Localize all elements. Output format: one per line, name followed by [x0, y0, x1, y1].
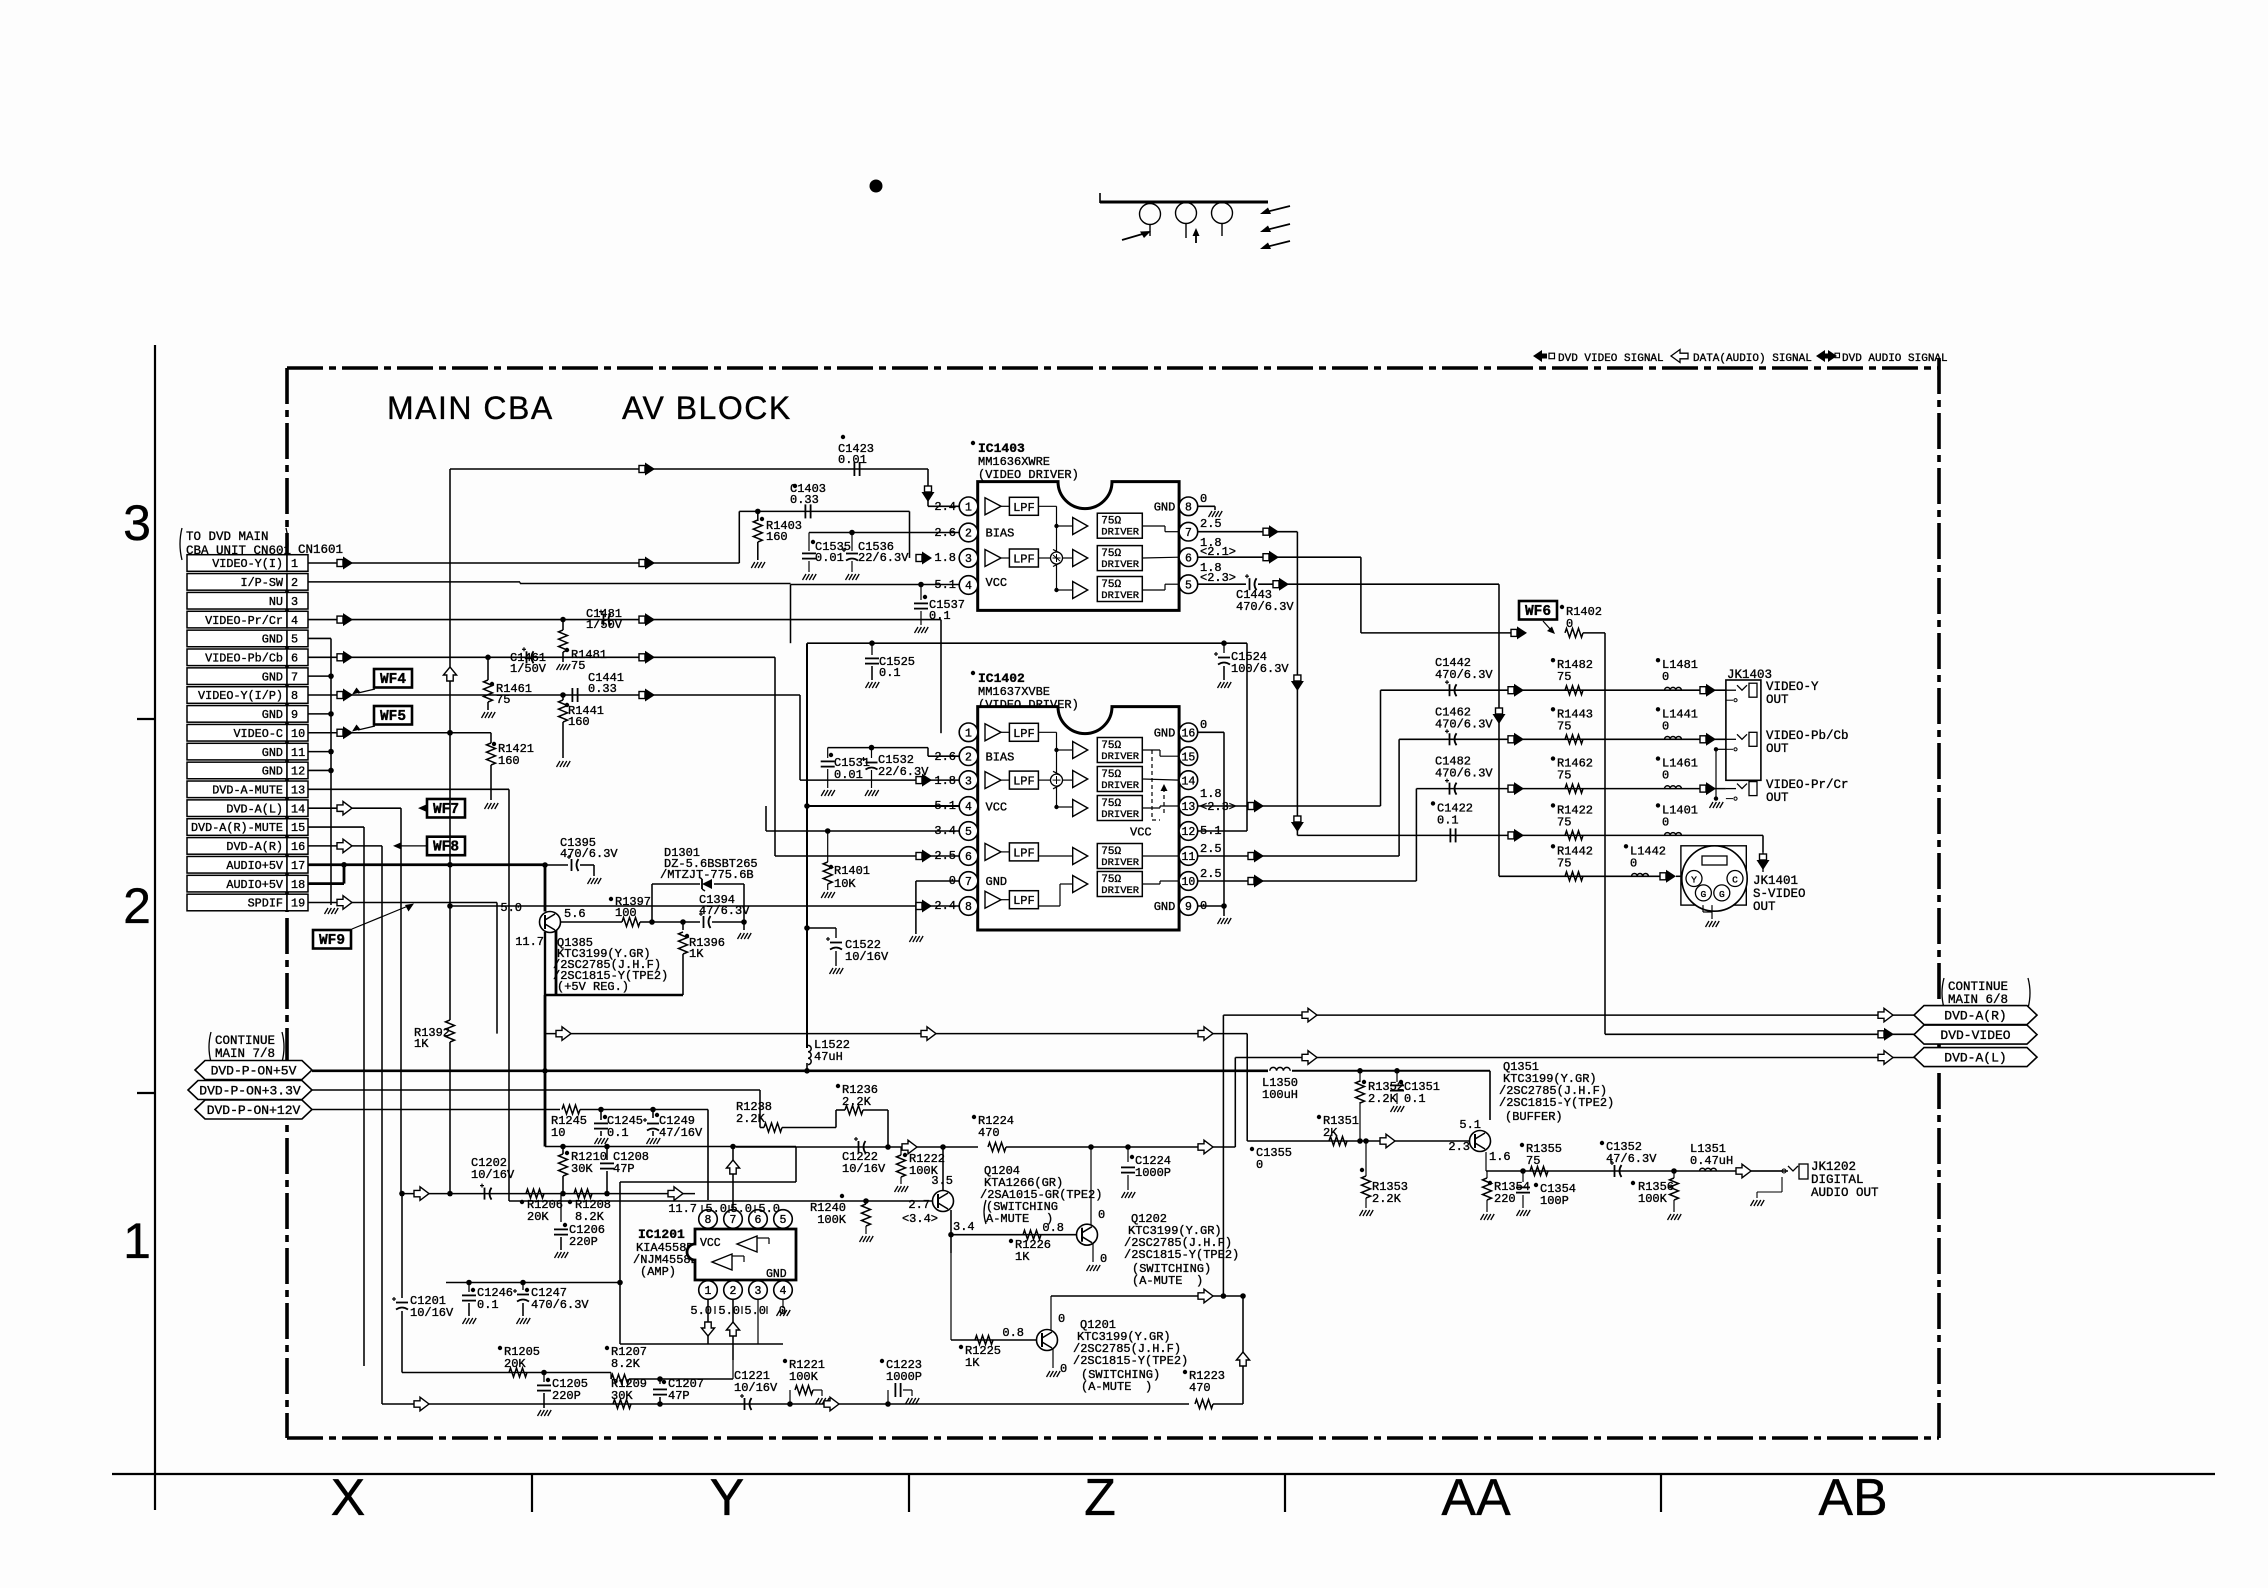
- Q1201 collector wire: [1050, 1296, 1052, 1330]
- arrow up R1223 trunk: [1242, 1296, 1244, 1404]
- capacitor C1246: [468, 1283, 470, 1293]
- capacitor C1481: [596, 619, 616, 621]
- signal arrow pin8 right: [639, 692, 645, 699]
- svg-text:IC1403: IC1403: [978, 441, 1025, 456]
- wire pin14 DVD-A(L): [308, 807, 401, 809]
- resistor R1240: [509, 1200, 878, 1202]
- wire pin13 DVD-A-MUTE: [308, 788, 509, 790]
- svg-text:75: 75: [1557, 670, 1571, 684]
- resistor R1401: [825, 828, 831, 834]
- svg-text:1/50V: 1/50V: [510, 662, 547, 676]
- svg-text:30K: 30K: [611, 1389, 633, 1403]
- IC1402 pin 6: [959, 847, 978, 866]
- arrow WF4 pointer: [358, 689, 375, 693]
- svg-text:470/6.3V: 470/6.3V: [531, 1298, 589, 1312]
- signal arrow into JK1403 Pr: [1700, 785, 1706, 792]
- svg-text:<3.4>: <3.4>: [902, 1212, 938, 1226]
- junction pin8/R1441: [560, 692, 566, 698]
- signal arrow down pin7 chain lower: [1294, 816, 1301, 822]
- svg-text:0.1: 0.1: [1404, 1092, 1426, 1106]
- connector CN1601 pin 4 VIDEO-Pr/Cr: [187, 611, 287, 628]
- connector CN1601 pin 18 AUDIO+5V: [187, 875, 287, 892]
- signal arrow down into IC1403 pin1: [925, 486, 932, 492]
- wire IC1403 pin4 VCC: [791, 584, 960, 586]
- waveform label WF8: [427, 837, 465, 856]
- IC IC1201 body: [687, 1229, 796, 1280]
- signal arrow WF6 wire: [1511, 629, 1517, 636]
- wire output row Pr: [1416, 788, 1726, 790]
- ground symbol gnd bus: [325, 908, 329, 914]
- wire pin4 VIDEO-Pr/Cr: [308, 619, 941, 621]
- capacitor C1245: [598, 1107, 604, 1113]
- wire pin15 DVD-A(R)-MUTE: [308, 826, 364, 828]
- svg-text:4: 4: [965, 801, 972, 814]
- IC1402 75ohm driver 3: [1097, 796, 1142, 821]
- svg-text:G: G: [1701, 889, 1707, 900]
- svg-text:8: 8: [705, 1214, 712, 1227]
- wire R1236 to C1222 row: [887, 1110, 889, 1147]
- capacitor C1522: [807, 927, 836, 929]
- connector CN1601 pin 8 VIDEO-Y(I/P): [187, 687, 287, 704]
- svg-text:(BUFFER): (BUFFER): [1505, 1110, 1563, 1124]
- svg-text:220P: 220P: [552, 1389, 581, 1403]
- svg-text:2: 2: [291, 576, 298, 590]
- capacitor C1536: [849, 530, 855, 536]
- IC1403 driver outputs to pins: [1142, 525, 1165, 527]
- svg-text:15: 15: [291, 821, 305, 835]
- JK1403 ground stub: [1716, 748, 1726, 750]
- arrow WF8 pointer: [400, 845, 445, 847]
- capacitor C1207: [659, 1379, 661, 1384]
- svg-text:): ): [1196, 1274, 1203, 1288]
- svg-text:13: 13: [291, 784, 305, 798]
- svg-text:0: 0: [1662, 719, 1669, 733]
- AV block border left: [285, 368, 289, 1438]
- Q1202 collector wire: [1090, 1147, 1092, 1225]
- connector CN1601 pin 16 DVD-A(R): [187, 838, 287, 855]
- svg-text:100K: 100K: [789, 1370, 819, 1384]
- svg-text:0: 0: [1630, 856, 1637, 870]
- svg-text:10/16V: 10/16V: [842, 1162, 886, 1176]
- diode D1301: [651, 884, 653, 922]
- svg-text:470/6.3V: 470/6.3V: [1435, 717, 1493, 731]
- svg-text:30K: 30K: [571, 1162, 593, 1176]
- connector CN1601 pin 6 VIDEO-Pb/Cb: [187, 649, 287, 666]
- svg-text:0.1: 0.1: [879, 666, 901, 680]
- transistor Q1202: [1077, 1224, 1098, 1245]
- waveform label WF4: [374, 669, 412, 688]
- svg-text:GND: GND: [986, 875, 1008, 889]
- signal arrow down into JK1401 C: [1760, 854, 1767, 860]
- wire IC1201 pin4 gnd: [782, 1300, 784, 1308]
- svg-text:9: 9: [1185, 901, 1192, 914]
- svg-text:(A-MUTE: (A-MUTE: [1081, 1380, 1131, 1394]
- wire audio R lower chain: [402, 1372, 611, 1374]
- svg-text:7: 7: [291, 670, 298, 684]
- fold mark arrow 1: [1122, 233, 1146, 240]
- svg-text:DVD-P-ON+3.3V: DVD-P-ON+3.3V: [199, 1084, 301, 1099]
- svg-text:220: 220: [1494, 1192, 1516, 1206]
- IC1403 75ohm driver 1: [1097, 513, 1142, 538]
- svg-text:0: 0: [1060, 1362, 1067, 1376]
- svg-text:0.1: 0.1: [477, 1298, 499, 1312]
- signal arrow pin6 right: [639, 654, 645, 661]
- IC1402 pin 1: [959, 723, 978, 742]
- IC1403 pin 8: [1179, 497, 1198, 516]
- IC1403 wiring internal: [1038, 505, 1056, 507]
- continue main 6/8 note: [1942, 978, 1944, 1008]
- sheet frame left border: [154, 345, 156, 1510]
- svg-text:16: 16: [1181, 728, 1195, 741]
- signal arrow into JK1403 Pb: [1700, 736, 1706, 743]
- wire DVD-P-ON+12V: [312, 1109, 560, 1111]
- wire +5V down from Q1385: [544, 995, 547, 1147]
- resistor R1356: [1671, 1168, 1677, 1174]
- IC1402 wiring internal: [1038, 731, 1056, 733]
- continue main 7/8 note: [209, 1032, 211, 1062]
- svg-text:AV BLOCK: AV BLOCK: [622, 390, 792, 426]
- connector CN1601 pin 15 DVD-A(R)-MUTE: [187, 819, 287, 836]
- svg-text:0: 0: [1662, 815, 1669, 829]
- wire SPDIF digital audio path: [545, 1033, 1247, 1035]
- svg-text:1: 1: [965, 502, 972, 515]
- svg-text:18: 18: [291, 878, 305, 892]
- inductor L1481: [1665, 687, 1682, 690]
- ground JK1403: [1710, 802, 1714, 808]
- waveform label WF9: [313, 930, 351, 949]
- junction pin10/R1421: [447, 730, 453, 736]
- wire Q1351 emitter row: [1485, 1152, 1487, 1171]
- svg-text:2: 2: [123, 878, 151, 934]
- wire IC1403 pin5 output: [1198, 583, 1246, 585]
- signal arrow pin1 mid: [639, 560, 645, 567]
- label R1481 dot: [565, 648, 569, 652]
- svg-text:(AMP): (AMP): [640, 1265, 676, 1279]
- capacitor C1532: [869, 745, 875, 751]
- svg-text:I/P-SW: I/P-SW: [241, 576, 284, 590]
- svg-text:75: 75: [1526, 1154, 1540, 1168]
- resistor R1236: [835, 1110, 837, 1128]
- wire pin16 DVD-A(R): [308, 845, 382, 847]
- svg-text:2.3: 2.3: [1448, 1140, 1470, 1154]
- svg-text:DATA(AUDIO) SIGNAL: DATA(AUDIO) SIGNAL: [1693, 353, 1812, 365]
- svg-text:BIAS: BIAS: [986, 751, 1015, 765]
- svg-text:1K: 1K: [965, 1356, 980, 1370]
- IC1403 driver amp 2: [1073, 550, 1088, 567]
- IC1402 75ohm driver 5: [1097, 872, 1142, 897]
- ground R1461: [482, 712, 486, 718]
- IC1402 summing node: [1051, 774, 1063, 786]
- svg-text:5.0: 5.0: [705, 1202, 727, 1216]
- connector CN1601 header note: [180, 528, 182, 560]
- svg-text:2K: 2K: [1323, 1126, 1338, 1140]
- svg-text:LPF: LPF: [1013, 727, 1035, 741]
- svg-text:(+5V REG.): (+5V REG.): [557, 980, 629, 994]
- svg-text:11.7: 11.7: [668, 1202, 697, 1216]
- wire IC1402 pin11 output to row Pb riser: [1198, 855, 1399, 857]
- wire IC1201 pin7 up: [732, 1147, 734, 1211]
- svg-text:1: 1: [123, 1213, 151, 1269]
- signal arrow row C1442: [1508, 687, 1514, 694]
- signal arrow down pin5 chain: [1496, 708, 1503, 714]
- IC1402 driver amp 1: [1073, 742, 1088, 759]
- svg-text:VCC: VCC: [986, 801, 1008, 815]
- junction Q1201 row to DVD-A(R) trunk: [1221, 1293, 1227, 1299]
- svg-text:11: 11: [1181, 851, 1195, 864]
- svg-text:LPF: LPF: [1013, 775, 1035, 789]
- capacitor C1223: [885, 1401, 891, 1407]
- wire IC1402 pin4 VCC thick: [807, 805, 959, 807]
- wire audio L input: [401, 1193, 695, 1195]
- svg-text:GND: GND: [262, 746, 283, 760]
- svg-text:160: 160: [568, 715, 590, 729]
- IC1402 LPF box 1: [1001, 731, 1009, 733]
- wire pin19 SPDIF: [308, 901, 497, 903]
- power tag DVD-P-ON+5V: [195, 1061, 312, 1080]
- arrow DVD-A(L) mid: [1302, 1051, 1317, 1065]
- svg-text:1.8: 1.8: [1200, 787, 1222, 801]
- svg-text:100/6.3V: 100/6.3V: [1231, 662, 1289, 676]
- svg-text:VIDEO-Y(I/P): VIDEO-Y(I/P): [198, 689, 283, 703]
- svg-text:100P: 100P: [1540, 1194, 1569, 1208]
- resistor R1354: [1485, 1170, 1487, 1172]
- svg-text:11: 11: [291, 746, 305, 760]
- svg-text:47P: 47P: [668, 1389, 690, 1403]
- VCC rail box around IC1402: [807, 642, 1247, 644]
- svg-text:75: 75: [1557, 815, 1571, 829]
- IC1403 summing node: [1051, 552, 1063, 564]
- svg-text:IC1402: IC1402: [978, 671, 1025, 686]
- arrow R1224 row: [1198, 1140, 1213, 1154]
- svg-text:1: 1: [291, 557, 298, 571]
- resistor R1481: [562, 620, 564, 630]
- svg-text:4: 4: [780, 1285, 787, 1298]
- svg-text:0: 0: [1566, 617, 1573, 631]
- signal arrow into JK1403 Y: [1700, 687, 1706, 694]
- arrow WF9 pointer: [352, 906, 408, 929]
- svg-text:DRIVER: DRIVER: [1101, 857, 1140, 869]
- svg-text:10: 10: [291, 727, 305, 741]
- svg-text:12: 12: [1181, 826, 1195, 839]
- svg-text:3: 3: [291, 595, 298, 609]
- connector CN1601 pin 2 I/P-SW: [187, 574, 287, 591]
- IC1402 75ohm driver 4: [1097, 844, 1142, 869]
- svg-text:47/6.3V: 47/6.3V: [699, 904, 750, 918]
- svg-text:3: 3: [965, 775, 972, 788]
- svg-text:0: 0: [1100, 1252, 1107, 1266]
- signal tag DVD-VIDEO: [1914, 1025, 2037, 1044]
- IC1402 dashed feedback: [1151, 750, 1153, 820]
- svg-text:GND: GND: [1154, 501, 1176, 515]
- svg-text:1: 1: [705, 1285, 712, 1298]
- resistor R1355: [1530, 1167, 1548, 1176]
- svg-text:10/16V: 10/16V: [845, 950, 889, 964]
- resistor R1443: [1565, 735, 1583, 744]
- svg-text:2: 2: [965, 751, 972, 764]
- svg-text:0.8: 0.8: [1002, 1326, 1024, 1340]
- svg-text:10: 10: [551, 1126, 565, 1140]
- JK1403 jack pin: [1726, 788, 1736, 790]
- JK1401 key slot: [1702, 856, 1727, 865]
- resistor R1222: [900, 1146, 902, 1148]
- wire C1222 row: [736, 1146, 978, 1148]
- svg-text:0.33: 0.33: [790, 493, 819, 507]
- wire R1402 to DVD-VIDEO trunk: [1583, 632, 1605, 634]
- svg-text:JK1401: JK1401: [1753, 874, 1798, 888]
- wire low rail 1282: [446, 1282, 620, 1284]
- ground JK1202: [1751, 1200, 1755, 1206]
- svg-text:15: 15: [1181, 751, 1195, 764]
- svg-text:9: 9: [291, 708, 298, 722]
- connector JK1401 body box: [1681, 846, 1746, 905]
- frame column tick X/Y: [531, 1474, 533, 1512]
- arrow WF5 pointer: [358, 726, 375, 730]
- resistor R1421: [490, 733, 492, 743]
- resistor R1397: [560, 921, 622, 923]
- arrows on SPDIF digital wire: [556, 1027, 571, 1041]
- svg-text:VCC: VCC: [700, 1237, 721, 1250]
- svg-text:DRIVER: DRIVER: [1101, 559, 1140, 571]
- svg-text:OUT: OUT: [1753, 900, 1776, 914]
- connector CN1601 pin 7 GND: [187, 668, 287, 685]
- capacitor C1403: [804, 504, 806, 518]
- svg-text:2.5: 2.5: [1200, 867, 1222, 881]
- svg-text:0: 0: [1662, 769, 1669, 783]
- Q1201 emitter wire: [1052, 1348, 1054, 1368]
- arrow DVD-A(R) at tag: [1878, 1008, 1893, 1022]
- fold mark arrow 3c: [1266, 241, 1290, 247]
- wire IC1402 pin8 input: [450, 905, 959, 907]
- svg-text:0: 0: [1098, 1208, 1105, 1222]
- svg-text:LPF: LPF: [1013, 894, 1035, 908]
- svg-text:5.0: 5.0: [744, 1304, 766, 1318]
- arrow Q1351 base: [1380, 1134, 1395, 1148]
- svg-text:10/16V: 10/16V: [734, 1381, 778, 1395]
- svg-text:470/6.3V: 470/6.3V: [560, 847, 618, 861]
- svg-text:WF5: WF5: [380, 709, 406, 725]
- IC1402 LPF box 3: [1001, 851, 1009, 853]
- capacitor C1247: [522, 1283, 524, 1291]
- resistor R1225: [975, 1336, 993, 1345]
- svg-text:LPF: LPF: [1013, 501, 1035, 515]
- svg-text:A-MUTE: A-MUTE: [986, 1212, 1029, 1226]
- IC1402 LPF box 2: [1001, 779, 1009, 781]
- Q1385 emitter rail: [545, 994, 683, 996]
- fold mark circle 1: [1140, 204, 1161, 225]
- IC1402 driver amp 5: [1073, 876, 1088, 893]
- svg-text:1000P: 1000P: [1135, 1166, 1171, 1180]
- svg-text:VIDEO-Pr/Cr: VIDEO-Pr/Cr: [1766, 778, 1849, 792]
- svg-text:DVD VIDEO SIGNAL: DVD VIDEO SIGNAL: [1558, 353, 1664, 365]
- svg-text:Y: Y: [1691, 875, 1697, 886]
- svg-text:OUT: OUT: [1766, 742, 1789, 756]
- arrow Q1201 collector row: [1198, 1289, 1213, 1303]
- resistor R1207: [610, 1373, 612, 1380]
- wire +12V to IC1201 pin8: [707, 1110, 709, 1201]
- svg-text:/2SC1815-Y(TPE2): /2SC1815-Y(TPE2): [1073, 1354, 1188, 1368]
- svg-text:Y: Y: [710, 1469, 745, 1527]
- IC IC1402 body: [978, 707, 1179, 930]
- svg-text:OUT: OUT: [1766, 693, 1789, 707]
- svg-text:DIGITAL: DIGITAL: [1811, 1173, 1864, 1187]
- svg-text:7: 7: [1185, 527, 1192, 540]
- resistor R1221: [787, 1401, 793, 1407]
- svg-text:0.1: 0.1: [929, 609, 951, 623]
- frame row tick 3/2: [137, 718, 155, 720]
- svg-text:13: 13: [1181, 801, 1195, 814]
- svg-text:5.0: 5.0: [758, 1202, 780, 1216]
- svg-text:GND: GND: [262, 765, 283, 779]
- junction C1207 bottom: [657, 1401, 663, 1407]
- svg-text:17: 17: [291, 859, 305, 873]
- wire DVD-P-ON+3.3V: [312, 1089, 760, 1091]
- JK1401 pin C: [1727, 871, 1743, 887]
- IC1402 pin 9: [1179, 897, 1198, 916]
- feedback wire top: [545, 1146, 796, 1148]
- svg-text:AUDIO+5V: AUDIO+5V: [226, 878, 284, 892]
- IC1402 internal amp pin1: [985, 724, 1001, 741]
- connector CN1601 pin 3 NU: [187, 592, 287, 609]
- connector CN1601 pin 14 DVD-A(L): [187, 800, 287, 817]
- svg-text:100K: 100K: [817, 1213, 847, 1227]
- IC1403 pin 3: [959, 549, 978, 568]
- resistor R1209: [613, 1400, 631, 1409]
- svg-text:DVD-A(R)-MUTE: DVD-A(R)-MUTE: [191, 821, 283, 835]
- wire IC1402 pin3 input: [800, 779, 959, 781]
- svg-text:5: 5: [965, 826, 972, 839]
- IC1402 75ohm driver 1: [1097, 738, 1142, 763]
- svg-text:0.01: 0.01: [838, 453, 867, 467]
- signal arrow into IC1403 pin3: [916, 555, 922, 562]
- frame column tick Z/AA: [1284, 1474, 1286, 1512]
- wire Q1351 base: [1247, 1140, 1469, 1142]
- svg-text:1K: 1K: [689, 947, 704, 961]
- arrow into IC1402 pin8: [916, 903, 922, 910]
- svg-text:6: 6: [1185, 552, 1192, 565]
- svg-text:S-VIDEO: S-VIDEO: [1753, 887, 1806, 901]
- arrow audio R mid: [824, 1397, 839, 1411]
- svg-text:5.6: 5.6: [564, 907, 586, 921]
- IC1403 75ohm driver 3: [1097, 577, 1142, 602]
- arrow up IC1201 pin2: [726, 1322, 739, 1336]
- svg-text:5: 5: [1185, 579, 1192, 592]
- svg-text:75: 75: [571, 659, 585, 673]
- svg-text:NU: NU: [269, 595, 283, 609]
- transistor Q1201: [1037, 1330, 1058, 1351]
- frame row tick 2/1: [137, 1092, 155, 1094]
- IC1403 75ohm driver 2: [1097, 546, 1142, 571]
- junction pin4/R1481: [560, 617, 566, 623]
- wire +3.3V to R1238: [759, 1090, 761, 1128]
- svg-text:WF6: WF6: [1525, 604, 1551, 620]
- transistor Q1204: [933, 1191, 954, 1212]
- svg-text:100: 100: [615, 906, 637, 920]
- Q1385 collector/emitter wires: [544, 890, 546, 912]
- capacitor C1221: [744, 1398, 746, 1410]
- IC1402 pin 13: [1179, 797, 1198, 816]
- wire IC1402 pin2 BIAS left: [928, 755, 959, 757]
- svg-text:/2SC1815-Y(TPE2): /2SC1815-Y(TPE2): [1499, 1096, 1614, 1110]
- waveform label WF7: [427, 799, 465, 818]
- junction pin10 trunk: [447, 730, 453, 736]
- capacitor C1535: [808, 533, 810, 552]
- inductor L1461: [1665, 786, 1682, 789]
- svg-text:GND: GND: [1154, 900, 1176, 914]
- junction base R1352: [1357, 1138, 1363, 1144]
- signal arrow down pin7 chain upper: [1294, 675, 1301, 681]
- arrow audio L into IC: [668, 1187, 683, 1201]
- IC1201 pins bottom: [699, 1281, 718, 1300]
